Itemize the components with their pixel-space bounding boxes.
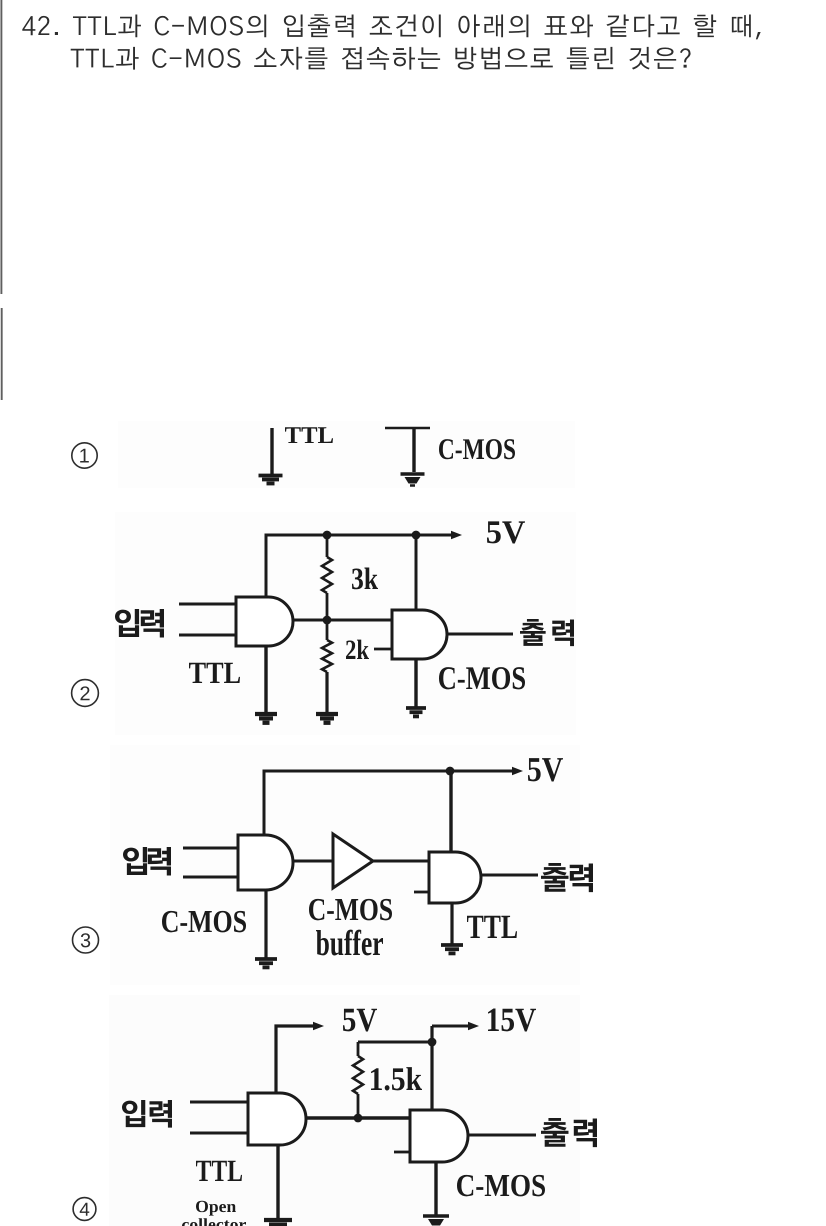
buffer C-MOS U1 (opt3) — [333, 834, 373, 888]
wire input B (opt3) — [183, 876, 238, 879]
ground C-MOS (opt2) — [406, 708, 426, 716]
resistor 1.5k (opt4) — [353, 1042, 363, 1118]
label buffer line2 (opt3) — [316, 930, 383, 956]
option marker 2 — [72, 680, 99, 707]
option marker 4 — [73, 1198, 96, 1221]
AND gate C-MOS (opt4) — [410, 1110, 468, 1162]
resistor 3k (opt2) — [322, 535, 332, 620]
label output (opt2) — [520, 619, 574, 646]
wire input A (opt2) — [179, 603, 236, 606]
wire TTL Vcc (opt3) — [449, 771, 452, 852]
label input (opt3) — [123, 847, 171, 876]
label 15V (opt4) — [488, 1009, 536, 1032]
node pullup tap (opt4) — [354, 1114, 363, 1123]
AND gate C-MOS (opt2) — [392, 610, 447, 659]
wire TTL output (opt2) — [293, 619, 392, 622]
AND gate TTL open-collector (opt4) — [248, 1093, 306, 1145]
ground TTL (opt4) — [264, 1220, 292, 1226]
question text line 2 — [71, 47, 691, 70]
label 5V (opt4) — [343, 1009, 377, 1032]
wire C-MOS ground lead (opt3) — [264, 890, 267, 958]
node divider tap (opt2) — [323, 616, 332, 625]
label C-MOS buffer line1 (opt3) — [309, 899, 392, 921]
wire C-MOS ground lead (opt2) — [414, 659, 417, 707]
ground TTL (opt2) — [255, 714, 277, 723]
label C-MOS (opt2) — [439, 667, 525, 689]
ground C-MOS chassis (opt4) — [423, 1216, 449, 1226]
option marker 3 — [73, 927, 99, 953]
wire buffer-to-TTL (opt3) — [373, 860, 429, 863]
wire resistor link (opt4) — [358, 1041, 432, 1044]
ground C-MOS chassis (opt1) — [401, 474, 425, 486]
option marker 1 — [72, 443, 97, 468]
label Open (opt4) — [196, 1201, 236, 1216]
wire TTL ground lead (opt4) — [276, 1145, 279, 1219]
arrow 5V (opt4) — [313, 1022, 324, 1030]
wire 5V arm (opt4) — [276, 1026, 313, 1093]
label C-MOS (opt3) — [162, 911, 246, 933]
AND gate TTL (opt3) — [429, 852, 481, 903]
wire TTL ground lead (opt2) — [264, 646, 267, 713]
wire C-MOS input stub (opt4) — [394, 1151, 410, 1154]
wire TTL input stub (opt3) — [414, 891, 429, 894]
label collector (opt4) — [182, 1218, 246, 1226]
wire input B (opt4) — [190, 1132, 248, 1135]
label input (opt4) — [122, 1100, 172, 1128]
label C-MOS (opt4) — [457, 1175, 545, 1197]
label C-MOS (opt1) — [439, 439, 515, 459]
node rail-3k (opt2) — [323, 531, 332, 540]
ground TTL (opt1) — [259, 476, 283, 484]
label 1.5k (opt4) — [371, 1067, 422, 1090]
label output (opt3) — [541, 863, 593, 892]
wire C-MOS ground lead (opt4) — [434, 1162, 437, 1215]
arrow 5V (opt3) — [512, 767, 523, 775]
wire TTL output (opt3) — [481, 874, 538, 877]
wire C-MOS output (opt4) — [468, 1134, 536, 1137]
label 5V (opt3) — [528, 758, 563, 781]
wire 15V rail (opt4) — [432, 1025, 468, 1028]
AND gate TTL (opt2) — [236, 597, 293, 646]
label output (opt4) — [541, 1118, 597, 1147]
wire C-MOS output (opt2) — [447, 633, 513, 636]
label TTL (opt1) — [285, 427, 333, 443]
wire 5V rail (opt2) — [266, 535, 451, 597]
label 5V (opt2) — [487, 521, 525, 543]
wire input A (opt4) — [190, 1101, 248, 1104]
label TTL (opt4) — [196, 1161, 242, 1181]
label 2k (opt2) — [346, 640, 369, 659]
node rail-CMOS (opt2) — [412, 531, 421, 540]
wire input A (opt3) — [183, 847, 238, 850]
wire 15V drop (opt4) — [430, 1026, 433, 1110]
label TTL (opt3) — [467, 916, 517, 938]
ground divider (opt2) — [316, 714, 338, 723]
question text line 1 — [22, 14, 760, 39]
ground C-MOS (opt3) — [255, 959, 277, 967]
wire TTL ground lead (opt1) — [270, 428, 273, 474]
label TTL (opt2) — [189, 663, 240, 683]
wire 5V rail (opt3) — [264, 771, 512, 835]
resistor 2k (opt2) — [322, 620, 332, 713]
AND gate C-MOS (opt3) — [238, 835, 293, 890]
wire CMOS input stub (opt2) — [374, 648, 392, 651]
label input (opt2) — [115, 609, 164, 638]
wire input B (opt2) — [179, 634, 236, 637]
wire TTL output (opt4) — [306, 1116, 410, 1119]
wire TTL ground lead (opt3) — [450, 903, 453, 944]
wire C-MOS ground lead (opt1) — [412, 428, 415, 472]
arrow 5V (opt2) — [451, 531, 462, 539]
arrow 15V (opt4) — [468, 1022, 479, 1030]
label 3k (opt2) — [352, 567, 378, 589]
wire C-MOS top stub (opt1) — [385, 427, 430, 430]
ground TTL (opt3) — [441, 945, 463, 953]
node 15V tap (opt4) — [428, 1038, 437, 1047]
wire C-MOS Vdd (opt2) — [415, 535, 418, 610]
wire gate-to-buffer (opt3) — [293, 860, 333, 863]
node rail-TTL (opt3) — [446, 767, 455, 776]
